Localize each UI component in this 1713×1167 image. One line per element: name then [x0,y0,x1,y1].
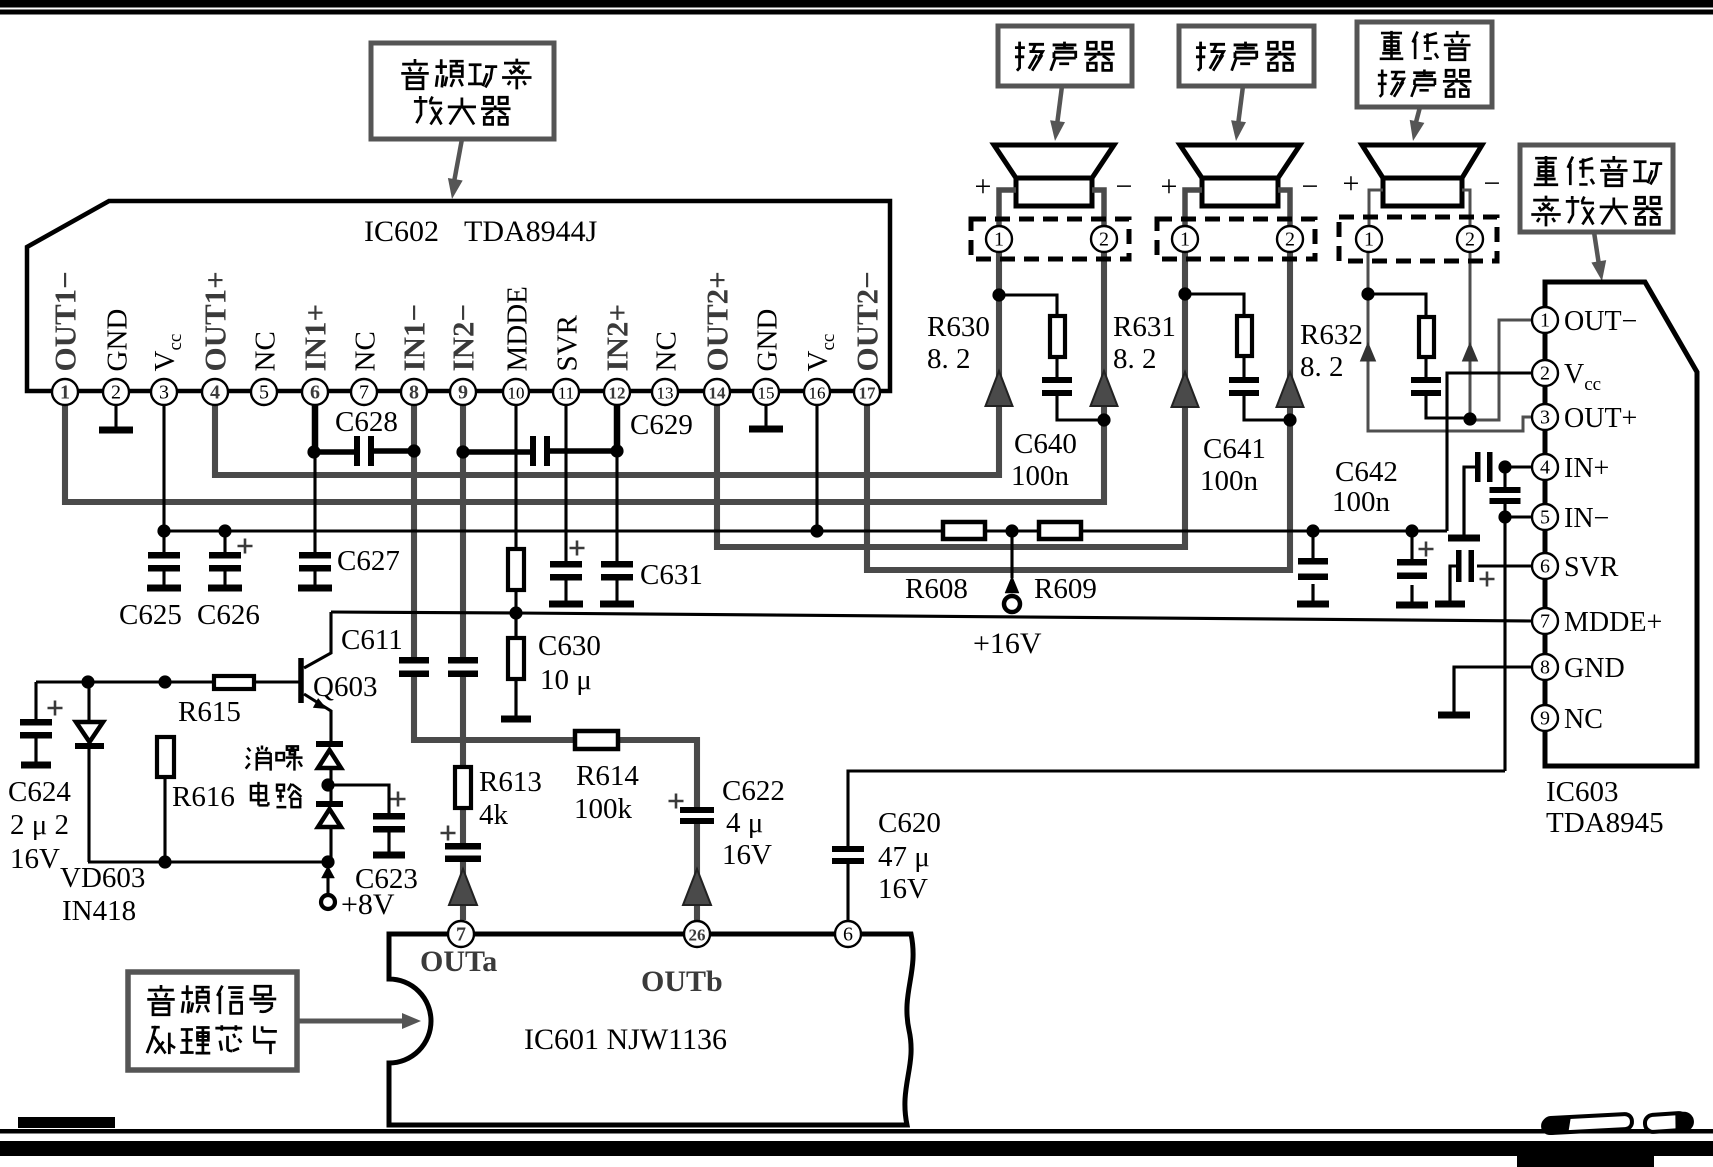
svg-text:R630: R630 [927,311,990,343]
wire C622 to IC601 pin26 (OUTb) [694,822,700,920]
pin 16 of IC602 [804,379,830,405]
svg-text:IN−: IN− [1564,503,1609,534]
wire IC603 SVR cap to pin6 [1477,564,1533,567]
svg-text:NC: NC [651,331,683,371]
wire IN+ to IN- coupling cap leads [1503,467,1506,487]
svg-text:15: 15 [758,384,775,403]
resistor R613 [455,767,471,808]
wire IN- line to C620 [848,771,1505,846]
wire IC602 pin12 to C631 [615,452,618,561]
junction [407,444,420,457]
wire C613 to IC601 pin7 (OUTa) [460,858,466,920]
wire IC602 pin10 to R-mdde [514,405,517,549]
svg-text:C631: C631 [640,559,703,591]
svg-text:2: 2 [111,382,121,404]
wire C641 to speaker2 pin2 net [1244,396,1290,420]
wire IN2- net (IC602 pin9 down to C612) [460,405,466,660]
wire cap1 to ground [1311,584,1314,601]
svg-text:OUT−: OUT− [1564,306,1637,337]
speaker1 - lead [1092,190,1104,226]
ground of C626 [223,572,226,589]
svg-text:11: 11 [558,384,574,403]
svg-text:2: 2 [1540,363,1550,385]
junction [1361,287,1374,300]
svg-text:2: 2 [1099,229,1109,251]
resistor R631 [1237,316,1252,356]
op-amp IC601 NJW1136 outline [389,934,913,1125]
svg-text:6: 6 [310,382,320,404]
svg-text:R631: R631 [1113,311,1176,343]
node +8V terminal [322,866,335,878]
capacitor C626 [209,552,241,559]
svg-text:IC601 NJW1136: IC601 NJW1136 [524,1023,727,1056]
wire R614 to C622 [618,740,697,807]
connector speaker3 pin2 [1457,226,1483,252]
wire C624 top lead [34,682,37,719]
callout box speaker1 [998,26,1132,86]
wire IC602 pin6 to C628 [312,405,319,452]
capacitor C620 [832,846,864,852]
svg-text:IC603: IC603 [1546,776,1619,808]
pin 10 of IC602 [503,379,529,405]
svg-text:C641: C641 [1203,433,1266,465]
pin 6 of IC602 [302,379,328,405]
wire subwoofer OUT- net (IC603 pin1 to speaker3 pin2) [1470,320,1533,420]
svg-text:GND: GND [1564,653,1625,684]
op-amp IC603 TDA8945 outline [1545,282,1697,766]
wire Vcc rail +16V (left segment) [164,529,943,532]
wire R631 to C641 [1242,356,1245,377]
callout text 扬声器 (2) [1196,42,1225,71]
callout text 音频功率 [401,59,429,89]
diode D1 noise [316,741,343,747]
svg-text:100n: 100n [1200,465,1259,497]
ground of C630 [514,679,517,719]
svg-text:R613: R613 [479,766,542,798]
callout box subwoofer amplifier [1520,145,1673,232]
junction [610,444,623,457]
capacitor rail decoupling 1 [1298,558,1328,565]
wire subwoofer OUT+ net (IC603 pin3 to speaker3 pin1) [1368,251,1533,431]
wire IN+ cap to ground [1464,467,1478,535]
label 消噪 (noise) [246,745,271,770]
capacitor SVR (pin11) [550,561,582,568]
svg-text:4: 4 [1540,457,1550,479]
svg-text:C622: C622 [722,775,785,807]
wire C624 bottom lead [34,738,37,763]
diode D2 noise [316,801,343,807]
wire C640 to speaker1 pin2 net [1057,396,1104,420]
wire Vcc rail between R608 R609 [985,529,1039,532]
wire Vcc rail up to IC603 pin2 [1447,373,1533,531]
capacitor C628 [354,436,360,466]
wire IC603 pin4 stub [1505,465,1533,468]
svg-text:Vcc: Vcc [1564,359,1601,395]
capacitor C612 [448,657,478,664]
resistor R630 [1050,316,1065,357]
pin 17 of IC602 [854,379,880,405]
svg-text:MDDE+: MDDE+ [1564,607,1662,638]
svg-text:IN418: IN418 [62,895,136,927]
svg-text:MDDE: MDDE [502,286,534,371]
callout text 扬声器 (1) [1015,42,1044,71]
svg-text:OUT2+: OUT2+ [700,271,735,371]
wire IC602 pin6 to C627 [313,452,316,552]
junction [456,445,469,458]
wire MDDE line (Q603 collector to IC603 pin7 MDDE+) [331,612,1533,621]
resistor R-mdde (pin10) [508,549,524,590]
ground of IN+ cap [1462,467,1465,538]
op-amp IC602 TDA8944J outline [27,201,890,391]
svg-text:TDA8944J: TDA8944J [464,215,598,248]
svg-text:5: 5 [259,382,269,404]
polarity + of C626 [238,539,253,554]
speaker2 - lead [1278,190,1290,226]
pin 13 of IC602 [652,379,678,405]
label 电路 (circuit) [251,782,268,805]
callout box audio signal processor [128,972,297,1070]
svg-text:OUT1+: OUT1+ [198,271,233,371]
junction [992,288,1005,301]
connector speaker2 pin1 [1172,226,1198,252]
junction [1498,510,1511,523]
svg-text:C625: C625 [119,599,182,631]
wire speaker3 pin1 branch to R632 [1368,294,1426,317]
svg-text:C627: C627 [337,545,400,577]
wire OUT2+ net (IC602 pin14 to speaker2 pin1) [717,251,1185,547]
svg-text:4: 4 [210,382,220,404]
junction [1405,524,1418,537]
svg-text:4 μ: 4 μ [726,807,763,839]
ground of C625 [162,572,165,589]
speaker symbol 3 subwoofer [1362,145,1482,178]
junction [158,855,171,868]
wire between noise diodes [329,768,332,806]
svg-text:GND: GND [102,309,134,372]
junction [218,524,231,537]
callout arrow to speaker2 [1238,86,1243,125]
capacitor C641 [1229,377,1259,383]
callout text 处理芯片 [147,1026,175,1054]
svg-text:C626: C626 [197,599,260,631]
ground of SVR cap [564,581,567,605]
svg-text:IN2−: IN2− [446,304,481,372]
wire R632 to C642 [1424,357,1427,377]
junction [81,675,94,688]
capacitor rail decoupling 2 [1397,559,1427,566]
wire OUT2- net (IC602 pin17 to speaker2 pin2) [867,251,1290,570]
junction [158,675,171,688]
capacitor C631 [601,561,633,568]
pin 14 of IC602 [704,379,730,405]
ground of C627 [313,572,316,589]
callout box speaker2 [1179,26,1314,86]
ground of decoupling 1 [1311,584,1314,604]
ground at IC602 pin15 [764,405,767,429]
svg-text:VD603: VD603 [60,862,145,894]
svg-text:C630: C630 [538,630,601,662]
pin 1 of IC603 [1532,307,1558,333]
wire base node to Q603 [254,680,301,683]
wire OUT1+ net (IC602 pin4 to speaker1 pin1) [215,251,999,475]
wire diode2 to bottom node [329,826,332,862]
pin 12 of IC602 [604,379,630,405]
polarity + of decoupling 2 [1419,542,1434,557]
svg-text:6: 6 [1540,556,1550,578]
ground of IC603 pin8 [1452,667,1455,715]
ground of C623 [387,832,390,855]
svg-text:14: 14 [709,384,727,403]
resistor R632 [1419,317,1434,357]
capacitor C613 (coupling to OUTa) [445,843,481,850]
junction [321,855,334,868]
svg-text:+: + [1343,167,1360,200]
callout arrow to speaker1 [1057,86,1062,125]
signal arrow speaker2 pin1 [1172,372,1199,407]
svg-text:C620: C620 [878,807,941,839]
callout text 音频信号 [147,985,175,1015]
pin 26 of IC601 [684,921,710,947]
speaker3 - lead [1462,190,1470,226]
wire IC603 pin5 stub [1505,515,1533,518]
resistor R615 [214,676,254,689]
wire C626 to Vcc rail [223,531,226,552]
connector speaker1 dashed box [971,219,1129,259]
svg-text:1: 1 [994,229,1004,251]
svg-text:5: 5 [1540,507,1550,529]
svg-text:8. 2: 8. 2 [1300,351,1344,383]
svg-text:R615: R615 [178,696,241,728]
capacitor C625 [148,552,180,559]
svg-text:16V: 16V [722,839,772,871]
signal arrow speaker2 pin2 [1277,372,1304,407]
wire C642 to speaker3 pin2 net [1426,396,1470,418]
svg-text:GND: GND [752,309,784,372]
svg-text:C642: C642 [1335,456,1398,488]
svg-text:12: 12 [609,384,626,403]
pin 5 of IC603 [1532,504,1558,530]
svg-text:2: 2 [1465,229,1475,251]
pin 2 of IC603 [1532,360,1558,386]
connector speaker3 pin1 [1356,226,1382,252]
svg-text:100n: 100n [1332,486,1391,518]
svg-text:7: 7 [1540,611,1550,633]
wire C620 to IC601 pin6 [846,864,849,921]
svg-text:8. 2: 8. 2 [1113,343,1157,375]
transistor Q603 [298,658,304,703]
capacitor IC603 SVR [1456,550,1462,582]
ground of C631 [615,581,618,605]
junction [1178,287,1191,300]
callout box: audio power amplifier [371,43,554,139]
svg-text:R614: R614 [576,760,639,792]
svg-text:IN2+: IN2+ [600,304,635,372]
wire subwoofer speaker3 pin2 lead [1469,251,1472,420]
node +16V terminal [1005,576,1019,593]
wire C624/VD603/R615 top rail [36,680,214,683]
svg-text:R608: R608 [905,573,968,605]
pin 3 of IC603 [1532,404,1558,430]
svg-text:1: 1 [1540,310,1550,332]
capacitor C629 [530,436,536,466]
connector speaker2 dashed box [1157,219,1315,259]
wire IN1- net (IC602 pin8 down to C611) [411,405,417,660]
callout text 扬声器 (3) [1378,70,1405,97]
svg-text:10 μ: 10 μ [540,664,592,696]
diode VD603 [76,722,103,742]
pin 5 of IC602 [251,379,277,405]
svg-text:7: 7 [359,382,369,404]
signal arrow into IC601 pin7 [449,869,477,905]
svg-text:+: + [1161,170,1178,203]
ground of IC603 SVR cap [1448,566,1451,604]
capacitor C611 [399,657,429,664]
svg-text:16V: 16V [10,843,60,875]
svg-text:C611: C611 [341,624,403,656]
capacitor C627 [299,552,331,559]
svg-text:26: 26 [689,926,706,945]
capacitor C622 [680,807,714,813]
wire Q603 emitter lead [304,694,331,745]
wire Vcc rail (right segment) [1081,529,1447,532]
resistor R614 [575,731,618,749]
svg-text:OUT1−: OUT1− [48,271,83,371]
svg-text:16: 16 [809,384,826,403]
wire C629 left lead [463,449,531,455]
wire speaker1 pin1 branch to R630 [999,295,1057,316]
svg-text:1: 1 [1364,229,1374,251]
pin 2 of IC602 [103,379,129,405]
callout box subwoofer speaker [1357,22,1492,107]
wire IN- line down [1503,517,1506,771]
border frame top bar [0,0,1713,8]
svg-text:9: 9 [1540,708,1550,730]
svg-text:Vcc: Vcc [802,334,839,372]
pin 9 of IC603 [1532,705,1558,731]
svg-text:R616: R616 [172,781,235,813]
svg-text:R609: R609 [1034,573,1097,605]
svg-text:2 μ 2: 2 μ 2 [10,809,69,841]
callout arrow to IC603 [1594,232,1599,265]
connector speaker2 pin2 [1277,226,1303,252]
pin 6 of IC601 [835,921,861,947]
polarity + of IC603 SVR cap [1480,572,1495,587]
wire C630 to ground [514,679,517,717]
svg-text:100n: 100n [1011,460,1070,492]
junction [307,445,320,458]
junction [1463,412,1476,425]
svg-text:SVR: SVR [552,314,584,371]
pin 7 of IC602 [351,379,377,405]
svg-text:16V: 16V [878,873,928,905]
svg-text:17: 17 [859,384,877,403]
wire C611 left to R614 node [414,673,575,740]
svg-text:C628: C628 [335,406,398,438]
svg-text:1: 1 [60,382,70,404]
svg-text:Q603: Q603 [313,671,377,703]
speaker symbol 2 [1180,145,1300,178]
wire rail decoupling cap1 lead [1311,531,1314,558]
callout text 重低音 [1380,31,1404,60]
svg-text:100k: 100k [574,793,633,825]
capacitor C642 [1411,377,1441,383]
resistor R616 [157,737,174,777]
pin 7 of IC601 [448,921,474,947]
pin 1 of IC602 [52,379,78,405]
svg-text:C624: C624 [8,776,71,808]
svg-text:13: 13 [657,384,674,403]
junction [157,524,170,537]
pin 3 of IC602 [151,379,177,405]
pin 11 of IC602 [553,379,579,405]
speaker2 + lead [1185,190,1202,226]
junction [810,524,823,537]
wire C628 right lead [374,448,414,454]
border frame bottom [18,1117,115,1128]
signal arrow speaker1 pin1 [986,371,1013,406]
wire +16V tap [1010,531,1013,578]
svg-text:OUT2−: OUT2− [850,271,885,371]
wire IC603 pin8 GND stub [1454,667,1533,713]
callout arrow to IC602 [454,139,462,182]
svg-text:NC: NC [350,331,382,371]
wire VD603 cathode lead [87,748,90,862]
wire C628 left lead [314,449,355,455]
wire Q603 collector riser [304,612,331,668]
svg-text:IN+: IN+ [1564,453,1609,484]
svg-text:IC602: IC602 [364,215,439,248]
svg-text:6: 6 [843,924,853,946]
wire OUT1- net (IC602 pin1 to speaker1 pin2) [65,251,1104,502]
junction [1097,413,1110,426]
svg-text:9: 9 [458,382,468,404]
pin 4 of IC602 [202,379,228,405]
svg-text:−: − [1116,170,1133,203]
wire bottom node rail to +8V node [88,860,328,863]
pin 7 of IC603 [1532,608,1558,634]
wire C612 to R613 [460,673,466,770]
signal arrow into IC601 pin26 [683,869,711,905]
svg-text:SVR: SVR [1564,552,1619,583]
junction [1005,524,1018,537]
callout arrow to speaker3 [1415,107,1420,126]
wire MDDE node to C630 [514,613,517,638]
wire cap2 to ground [1410,585,1413,602]
wire R616 lower lead [163,777,166,862]
junction [1306,524,1319,537]
polarity + of C624 [48,701,63,716]
junction [509,606,522,619]
wire IC602 pin11 to SVR cap [564,405,567,561]
polarity + of SVR cap [570,541,585,556]
callout text 重低音功 [1534,156,1558,185]
wire rail decoupling cap2 lead [1410,531,1413,559]
resistor R608 [943,522,985,539]
callout text 放大器 [414,96,442,124]
resistor R609 [1039,522,1081,539]
svg-text:OUT+: OUT+ [1564,403,1637,434]
capacitor C624 [20,719,52,726]
svg-text:1: 1 [1180,229,1190,251]
svg-text:IN1+: IN1+ [298,304,333,372]
capacitor IN+/IN- coupling [1490,487,1521,493]
svg-text:47 μ: 47 μ [878,841,930,873]
speaker3 + lead [1369,190,1383,226]
ground of decoupling 2 [1410,585,1413,605]
svg-text:2: 2 [1285,229,1295,251]
pin 9 of IC602 [450,379,476,405]
svg-text:8. 2: 8. 2 [927,343,971,375]
